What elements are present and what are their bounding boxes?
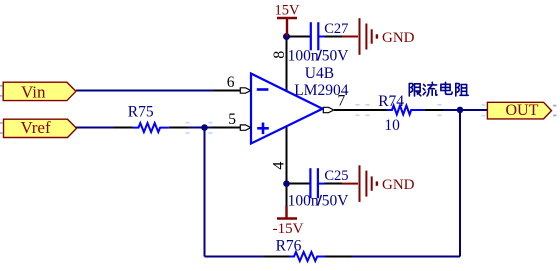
svg-text:6: 6: [227, 74, 235, 91]
svg-text:100n: 100n: [288, 193, 319, 210]
svg-text:50V: 50V: [322, 193, 350, 210]
svg-text:50V: 50V: [322, 47, 350, 64]
svg-text:Vin: Vin: [21, 83, 46, 102]
svg-text:R75: R75: [128, 103, 154, 120]
svg-text:Vref: Vref: [21, 118, 51, 137]
svg-text:-15V: -15V: [273, 221, 304, 237]
svg-text:15V: 15V: [275, 2, 301, 18]
svg-text:8: 8: [271, 51, 288, 59]
svg-text:C25: C25: [324, 168, 348, 184]
svg-text:C27: C27: [324, 21, 348, 37]
svg-text:5: 5: [228, 111, 236, 128]
svg-text:OUT: OUT: [506, 102, 539, 119]
svg-text:100n: 100n: [288, 47, 319, 64]
svg-text:7: 7: [338, 93, 346, 110]
svg-text:R76: R76: [276, 237, 302, 254]
svg-text:U4B: U4B: [305, 65, 334, 82]
svg-text:4: 4: [271, 162, 288, 170]
svg-text:GND: GND: [382, 177, 415, 193]
svg-text:R74: R74: [378, 93, 404, 110]
svg-text:10: 10: [384, 117, 400, 134]
svg-text:GND: GND: [382, 30, 415, 46]
